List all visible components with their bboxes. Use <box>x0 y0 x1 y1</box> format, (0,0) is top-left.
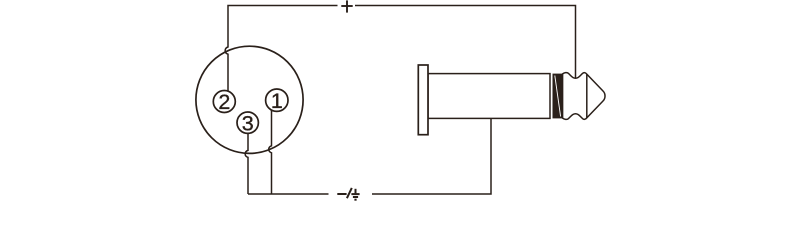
svg-text:1: 1 <box>271 89 283 113</box>
svg-text:3: 3 <box>242 111 254 135</box>
svg-text:2: 2 <box>218 90 230 114</box>
